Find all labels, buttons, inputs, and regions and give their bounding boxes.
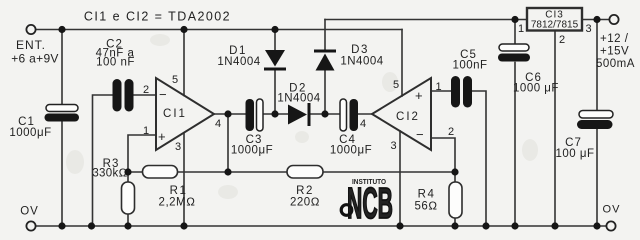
wire: CI1 pin 5 to +V rail [183, 30, 185, 96]
wire: D2 to C4 [310, 113, 340, 115]
regulator CI3 7812/7815 [527, 8, 582, 31]
svg-text:1000 μF: 1000 μF [513, 83, 559, 95]
svg-text:+: + [158, 129, 168, 144]
wire: C3 to D2 [262, 113, 288, 115]
svg-text:4: 4 [360, 118, 366, 130]
capacitor C7 (100uF electrolytic) [555, 111, 613, 161]
svg-text:OV: OV [603, 204, 621, 216]
node: C3 / D1 / D2 [271, 110, 278, 117]
capacitor C1 (1000uF electrolytic) [9, 105, 79, 140]
node: C1 on 0V rail [58, 222, 65, 229]
svg-text:1N4004: 1N4004 [217, 56, 260, 68]
wire: C5 right lead down to 0V [472, 91, 486, 226]
op-amp U2 pin numbers [360, 79, 454, 152]
wire: CI3 pin3 to output terminal [582, 19, 610, 21]
terminal: 0V right [606, 221, 615, 230]
wire: CI1 pin 1 feedback jog [128, 135, 156, 172]
svg-text:1: 1 [436, 81, 442, 93]
capacitor C2 (47nF-100nF) [96, 39, 135, 112]
wire: C7 column upper [596, 20, 598, 111]
svg-text:OV: OV [20, 206, 39, 218]
node: C6 on 0V rail [511, 222, 518, 229]
label: output voltage [596, 33, 635, 70]
wire: C2 left lead down to 0V [93, 95, 114, 226]
op-amp U1 pin numbers [143, 74, 221, 153]
node: C6 / CI3 pin1 on +12V rail [511, 16, 518, 23]
wire: CI3 pin 2 to 0V [554, 31, 556, 227]
node: CI1 output / C3 [224, 110, 231, 117]
svg-text:1000μF: 1000μF [231, 145, 273, 157]
node: R4 on 0V rail [451, 222, 458, 229]
svg-text:−: − [416, 127, 426, 142]
op-amp U2 labels [396, 88, 426, 142]
node: R2 / R4 / CI2 pin2 [451, 168, 458, 175]
wire: C6 column upper [514, 20, 516, 44]
svg-text:2: 2 [559, 34, 565, 46]
capacitor C4 (1000uF) [330, 99, 372, 157]
svg-text:CI2: CI2 [396, 111, 420, 123]
node: C7 / output terminal on +12V rail [593, 16, 600, 23]
capacitor C3 (1000uF) [231, 99, 273, 157]
svg-text:5: 5 [393, 79, 399, 91]
wire: CI2 pin 3 to 0V [399, 131, 401, 226]
node: C2 lead on 0V rail [88, 222, 95, 229]
wire: C6 column lower [514, 63, 516, 227]
svg-text:2: 2 [448, 126, 454, 138]
wire: CI1 pin 3 to 0V [183, 134, 185, 227]
wire: rectified +V rail to CI3 pin1 [325, 19, 527, 21]
svg-text:3: 3 [175, 141, 181, 153]
node: D2 / D3 / C4 [321, 110, 328, 117]
node: input junction on +V rail [58, 26, 65, 33]
svg-text:500mA: 500mA [596, 58, 635, 70]
wire: feedback bus R3 node to R1 [128, 171, 143, 173]
svg-text:5: 5 [172, 74, 178, 86]
op-amp U1 (CI1 TDA2002) [156, 78, 214, 150]
svg-text:100nF: 100nF [452, 60, 487, 72]
svg-text:1000μF: 1000μF [9, 127, 51, 139]
wire: C7 column lower [596, 130, 598, 227]
wire: output node to R2 [228, 171, 287, 173]
resistor R2 (220R) [287, 166, 323, 209]
diode D1 (1N4004, anode at +V rail) [217, 45, 286, 71]
wire: R1 to output node [178, 171, 229, 173]
svg-text:+12 /: +12 / [600, 33, 629, 45]
diode D3 (1N4004, cathode to +12V rail) [314, 44, 384, 71]
wire: D1 cathode to signal node [274, 71, 276, 115]
resistor R3 (330k) [92, 158, 134, 214]
svg-text:1: 1 [143, 125, 149, 137]
wire: CI2 pin 2 jog to R4 node [431, 138, 455, 172]
wire: R4 leads [454, 172, 456, 226]
svg-text:1000μF: 1000μF [330, 145, 372, 157]
capacitor C6 (1000uF electrolytic) [498, 44, 559, 95]
svg-text:R4: R4 [418, 189, 436, 201]
svg-text:3: 3 [586, 23, 592, 35]
resistor R4 (56R) [414, 182, 462, 218]
node: D1 junction on +V rail [271, 26, 278, 33]
node: CI1 pin3 on 0V rail [180, 222, 187, 229]
svg-text:1N4004: 1N4004 [277, 93, 320, 105]
svg-text:R2: R2 [296, 185, 314, 197]
op-amp U1 labels [158, 87, 187, 144]
logo: Instituto NCB [341, 179, 393, 228]
wire: CI1 pin 2 input [134, 94, 157, 96]
wire: R3 leads [127, 172, 129, 226]
op-amp U2 (CI2 TDA2002) [372, 78, 431, 150]
wire: CI2 pin 1 to C5 [431, 90, 451, 92]
svg-text:4: 4 [215, 118, 221, 130]
svg-text:100 nF: 100 nF [96, 57, 135, 69]
wire: C4 to CI2 apex [356, 113, 372, 115]
svg-text:+15V: +15V [600, 46, 629, 58]
svg-text:1: 1 [518, 23, 524, 35]
resistor R1 (2.2M) [143, 166, 196, 209]
wire: input column lower (C1 to 0V) [61, 122, 63, 227]
node: R1 / R2 / output drop [224, 168, 231, 175]
svg-text:330kΩ: 330kΩ [92, 168, 127, 180]
node: R3 / R1 / pin1 feedback [124, 168, 131, 175]
svg-text:2,2MΩ: 2,2MΩ [159, 197, 196, 209]
wire: D3 anode down to signal node [324, 71, 326, 115]
svg-text:+6 a+9V: +6 a+9V [11, 52, 58, 66]
wire: +V top rail [36, 29, 403, 31]
wire: input column upper (to C1) [61, 30, 63, 105]
wire: D3 cathode up to +12V rail [324, 20, 326, 50]
wire: CI2 pin 5 drop from +V rail [401, 30, 403, 97]
svg-text:56Ω: 56Ω [414, 201, 437, 213]
node: CI3 pin2 on 0V rail [551, 222, 558, 229]
wire: output node drop to feedback bus [227, 114, 229, 172]
node: CI1 pin5 junction on +V rail [180, 26, 187, 33]
node: CI2 pin3 on 0V rail [396, 222, 403, 229]
svg-text:D3: D3 [351, 44, 369, 56]
svg-text:3: 3 [391, 140, 397, 152]
wire: CI1 output pin 4 to C3 [214, 113, 246, 115]
label: ENT. input [11, 38, 58, 66]
svg-text:2: 2 [143, 84, 149, 96]
svg-text:1N4004: 1N4004 [340, 56, 383, 68]
diode D2 (1N4004, series in signal path) [277, 83, 320, 127]
terminal: 0V left [26, 221, 35, 230]
svg-text:100 μF: 100 μF [555, 148, 594, 160]
svg-text:ENT.: ENT. [16, 38, 46, 52]
svg-text:CI1 e CI2 = TDA2002: CI1 e CI2 = TDA2002 [84, 10, 231, 24]
wire: 0V bottom rail [36, 225, 607, 227]
wire: D1 anode from +V rail [274, 30, 276, 51]
node: C7 on 0V rail [593, 222, 600, 229]
terminal: +12/+15V output [609, 15, 618, 24]
svg-text:−: − [159, 87, 169, 102]
svg-text:NCB: NCB [347, 179, 393, 228]
node: C5 lead on 0V rail [482, 222, 489, 229]
svg-text:220Ω: 220Ω [290, 197, 320, 209]
terminal: input ENT. [26, 25, 35, 34]
wire: R2 to R4 node [323, 171, 455, 173]
svg-text:R1: R1 [170, 185, 188, 197]
svg-text:CI1: CI1 [163, 108, 187, 120]
svg-text:7812/7815: 7812/7815 [531, 20, 579, 31]
regulator CI3 pin numbers [518, 23, 592, 46]
capacitor C5 (100nF) [451, 49, 488, 108]
node: R3 on 0V rail [124, 222, 131, 229]
svg-text:+: + [415, 88, 425, 103]
